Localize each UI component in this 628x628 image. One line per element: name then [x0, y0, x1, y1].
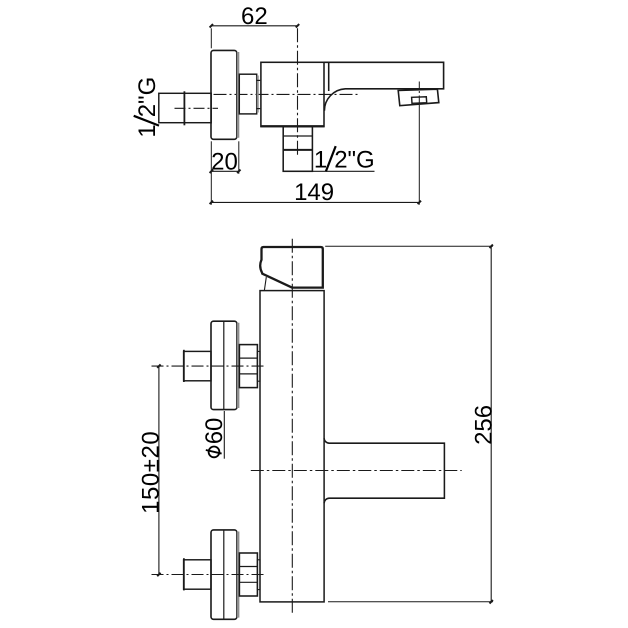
bottom fitting: nut: [239, 553, 257, 596]
spout (front view): [324, 438, 444, 503]
bottom nut facet upper: [239, 566, 257, 568]
dim 256 tick top: [490, 245, 493, 248]
outlet divider upper: [283, 135, 312, 137]
bottom fitting: escutcheon: [211, 530, 237, 619]
svg-text:2"G: 2"G: [134, 77, 161, 118]
svg-text:20: 20: [211, 148, 238, 175]
connector right shading: [257, 76, 259, 113]
horizontal spout centerline: [251, 470, 462, 472]
connector chamfer tick top: [257, 79, 261, 81]
main horizontal centerline (body axis): [214, 93, 361, 95]
dim 149 extension right (from aerator): [418, 107, 420, 205]
svg-text:256: 256: [471, 405, 498, 445]
bottom nut facet lower: [239, 581, 257, 583]
flange right shading band: [237, 52, 240, 138]
top fitting: escutcheon: [211, 321, 237, 409]
dim 20 extension right: [238, 141, 240, 174]
phi symbol slash: [206, 450, 222, 454]
top nut facet upper: [239, 357, 257, 359]
bottom pipe end line: [183, 558, 185, 590]
pipe divider line: [183, 91, 185, 125]
dim 20/149 extension left: [210, 141, 212, 204]
dimension 256: extension top: [325, 245, 493, 247]
svg-text:1: 1: [314, 146, 327, 173]
dimension 149: line: [211, 201, 419, 203]
top fitting: nut: [239, 345, 257, 388]
body bottom thick edge: [261, 125, 324, 127]
bottom outlet port: [283, 127, 312, 172]
dimension 20: line: [211, 170, 239, 172]
bottom fitting: pipe: [184, 560, 211, 589]
label 1/2"G bottom outlet: [314, 146, 375, 173]
dim 149 tick right: [418, 201, 421, 204]
inlet pipe (side view): [159, 93, 211, 122]
svg-text:2"G: 2"G: [334, 146, 375, 173]
aerator centerline: [418, 82, 420, 107]
label 1/2"G inlet (rotated): [134, 77, 161, 138]
bottom escutcheon face line: [223, 530, 225, 619]
connector chamfer tick bottom: [257, 108, 261, 110]
top nut collar: [257, 351, 260, 381]
handle inner edge line: [264, 277, 266, 291]
phi symbol circle: [209, 447, 220, 458]
spout (side view): [324, 62, 444, 111]
top fitting centerline: [152, 365, 265, 367]
dim 62 extension left: [210, 28, 212, 48]
label underline 1/2"G: [312, 170, 374, 172]
dim 150 tick top: [157, 364, 160, 367]
svg-text:1: 1: [134, 124, 161, 137]
mixer body (side view): [261, 62, 324, 126]
dim 256 tick bottom: [490, 600, 493, 603]
svg-text:62: 62: [241, 3, 268, 30]
top nut facet lower: [239, 373, 257, 375]
svg-text:149: 149: [294, 179, 334, 206]
dim 20 tick right: [237, 170, 240, 173]
bottom nut collar: [257, 560, 260, 590]
mixer body (front view): [260, 291, 324, 602]
top pipe end line: [183, 350, 185, 382]
top escutcheon face line: [223, 321, 225, 409]
dim 62 tick right: [296, 24, 299, 27]
dimension 62: line: [211, 25, 297, 27]
svg-text:60: 60: [201, 418, 228, 445]
top fitting: pipe: [184, 351, 211, 380]
dim 20 tick left: [210, 170, 213, 173]
phi60 leader line: [223, 411, 225, 459]
outlet vertical centerline: [297, 28, 299, 157]
dim 256 line: [490, 246, 492, 602]
wall flange (escutcheon, side view): [211, 50, 237, 139]
dim 256 extension bottom: [328, 601, 493, 603]
inlet pipe centerline: [175, 107, 219, 109]
svg-text:150±20: 150±20: [138, 431, 165, 514]
vertical body centerline: [291, 239, 293, 615]
aerator insert: [412, 97, 427, 104]
body/spout joint line: [328, 62, 330, 91]
dimension 150±20: line: [158, 366, 160, 574]
bottom fitting centerline: [152, 574, 265, 576]
aerator housing (tilted): [398, 89, 439, 106]
bottom escutcheon shading band: [237, 532, 240, 618]
dim 62 tick left: [210, 24, 213, 27]
connector cylinder: [239, 74, 256, 114]
dim 150 tick bottom: [157, 573, 160, 576]
dim 149 tick left: [210, 201, 213, 204]
lever handle (front view): [260, 247, 323, 288]
top escutcheon shading band: [237, 323, 240, 408]
outlet divider lower (thick): [283, 149, 312, 151]
